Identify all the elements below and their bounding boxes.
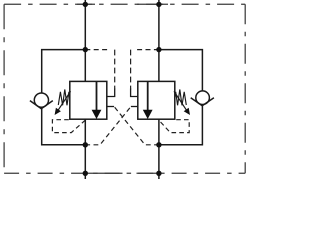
junction dot L1 upper branch (83, 47, 88, 52)
wire: branch to check valve CV2 (top) (159, 50, 203, 91)
counterbalance valve CB2 body (138, 81, 175, 119)
supply line L1 (left vertical) (84, 0, 86, 179)
CB1 flow path arrow (96, 81, 98, 110)
check valve CV2 ball (196, 91, 210, 105)
CB1 pilot port bracket (107, 89, 115, 97)
junction dot L2 bottom port (156, 171, 161, 176)
check valve CV1 seat (30, 101, 53, 109)
junction dot L1 top port (83, 2, 88, 7)
CB1 remote pilot line dashed (85, 49, 110, 51)
junction dot L2 lower branch (156, 142, 161, 147)
cross pilot dashed from CB2 to L1 (85, 107, 131, 145)
CB2 adjustment arrow (174, 91, 187, 111)
CB2 remote pilot line dashed (135, 49, 159, 51)
supply line L2 (right vertical) (158, 0, 160, 179)
wire: branch to check valve CV1 (top) (42, 50, 86, 93)
junction dot L2 top port (156, 2, 161, 7)
wire: branch from check valve CV2 (bottom) (159, 106, 203, 145)
counterbalance valve CB1 body (70, 81, 107, 119)
junction dot L2 upper branch (156, 47, 161, 52)
CB1 adjustment arrow (58, 91, 71, 111)
enclosure solid runs near port dots (77, 4, 168, 173)
enclosure dashed assembly boundary (4, 4, 245, 173)
junction dot L1 lower branch (83, 142, 88, 147)
CB2 spring (175, 89, 187, 105)
wire: branch from check valve CV1 (bottom) (42, 109, 86, 145)
CB2 spring drain dashed (159, 120, 189, 133)
junction dot L1 bottom port (83, 171, 88, 176)
check valve CV1 ball (34, 93, 48, 107)
check valve CV2 seat (191, 98, 214, 106)
CB1 spring (58, 89, 70, 105)
CB1 spring drain dashed (52, 120, 85, 133)
CB2 flow path arrow (147, 81, 149, 110)
CB2 pilot port bracket (131, 89, 138, 97)
cross pilot dashed from CB1 to L2 (114, 107, 159, 145)
